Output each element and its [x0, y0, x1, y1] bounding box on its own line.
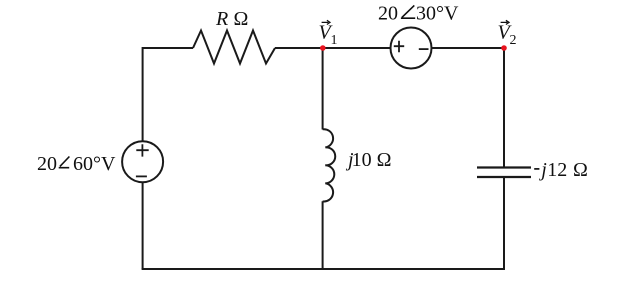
label R ohm: [215, 8, 248, 30]
node V1 red dot: [320, 45, 326, 51]
label 20∠30°V: [378, 3, 459, 25]
label V1 with vector arrow: [319, 20, 338, 48]
wire: middle vertical lower (inductor to bottom): [322, 201, 324, 269]
svg-text:j: j: [538, 159, 547, 181]
wire: source circle to node V2: [432, 47, 505, 49]
plus sign of VS2: [394, 41, 404, 52]
wire: left vertical lower (source to bottom corner): [142, 182, 144, 269]
svg-text:30°V: 30°V: [416, 3, 459, 25]
wire: right vertical upper (node V2 to capacitor): [503, 47, 505, 168]
svg-text:Ω: Ω: [573, 159, 588, 181]
wire: middle vertical upper (node V1 to inductor): [322, 48, 324, 130]
label -j12 ohm: [534, 159, 588, 181]
svg-text:10 Ω: 10 Ω: [352, 149, 392, 171]
svg-text:20: 20: [378, 3, 398, 25]
node V2 red dot: [501, 45, 507, 51]
svg-text:R: R: [215, 8, 228, 30]
resistor R1 zigzag: [193, 31, 275, 64]
svg-text:60°V: 60°V: [73, 153, 116, 175]
wire: bottom horizontal: [142, 268, 505, 270]
label V2 with vector arrow: [498, 20, 517, 48]
minus sign of VS2: [419, 48, 429, 50]
wire: left vertical upper (corner to source VS1): [142, 47, 144, 141]
plus sign of VS1: [136, 144, 148, 156]
svg-text:1: 1: [331, 33, 338, 48]
wire: resistor to source circle through node V1: [275, 47, 391, 49]
label 20∠60°V: [37, 153, 116, 175]
wire: right vertical lower (capacitor to bottom): [503, 177, 505, 270]
inductor L1 coil: [323, 129, 336, 201]
minus sign of VS1: [136, 175, 147, 177]
voltage source VS1 (20∠60°V) circle: [122, 141, 163, 182]
capacitor C1 plates: [477, 168, 531, 178]
svg-text:12: 12: [547, 159, 567, 181]
svg-text:2: 2: [510, 33, 517, 48]
label j10 ohm: [345, 149, 391, 171]
wire: top-left horizontal from left corner to resistor: [142, 47, 193, 49]
svg-text:Ω: Ω: [234, 8, 249, 30]
voltage source VS2 (20∠30°V) circle: [391, 28, 432, 69]
svg-text:20: 20: [37, 153, 57, 175]
